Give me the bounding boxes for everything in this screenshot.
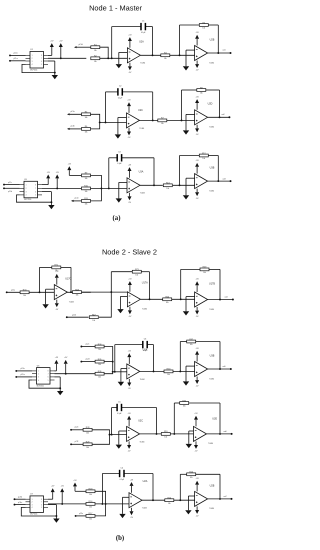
wire U3B out to node — [208, 365, 231, 369]
svg-text:TL084: TL084 — [209, 378, 214, 380]
power arrow 1 of U6 — [54, 357, 58, 371]
wire U17A out to R66 — [140, 298, 162, 300]
power V- arrow of U2D — [195, 125, 199, 136]
node uC2-RX wire row C — [3, 187, 19, 193]
op-amp U3D — [194, 417, 218, 445]
ground at + input of U3B — [183, 366, 195, 386]
feedback right wire of U3B — [217, 156, 219, 183]
svg-text:10k: 10k — [85, 204, 88, 206]
node uC1-TX input wire — [9, 52, 25, 57]
svg-text:10k: 10k — [190, 477, 193, 479]
power V+ arrow of U3A — [128, 164, 132, 177]
svg-text:U3A: U3A — [139, 171, 144, 174]
power V+ arrow of U3B — [195, 348, 199, 361]
svg-text:10k: 10k — [203, 272, 206, 274]
svg-text:TL084: TL084 — [209, 508, 214, 510]
feedback capacitor C4 — [102, 467, 153, 481]
wire U3D out to node — [207, 430, 232, 434]
power arrow 1 of U5 — [42, 172, 51, 185]
svg-text:U2A: U2A — [143, 480, 148, 483]
feedback left wire of U3A — [108, 158, 110, 190]
wire R7 to U2D — [167, 119, 195, 121]
ground wire under U1 — [22, 61, 56, 75]
node uC4-RX wire — [14, 502, 26, 506]
power arrow 1 of U7 — [48, 486, 55, 500]
wire node to U3A — [91, 187, 128, 189]
power arrow 2 of U5 — [55, 172, 59, 190]
input terminal row B lower — [67, 126, 82, 130]
svg-text:(a): (a) — [113, 215, 121, 222]
svg-text:10k: 10k — [200, 93, 203, 95]
node out row D junction — [232, 299, 234, 301]
input node row D — [6, 289, 91, 293]
power V+ arrow of U3C — [127, 413, 131, 426]
feedback resistor R73 — [111, 269, 149, 276]
power V- arrow of U3C — [127, 441, 131, 452]
feedback capacitor C6 — [115, 338, 154, 352]
ground at + input of U2A — [116, 52, 128, 68]
svg-text:(b): (b) — [116, 535, 124, 542]
node uC2-TX wire row C — [3, 182, 19, 186]
wire R9 to main node — [91, 175, 103, 189]
svg-text:TL084: TL084 — [69, 301, 74, 303]
svg-text:TL084: TL084 — [139, 128, 144, 130]
svg-text:U3D: U3D — [212, 417, 217, 420]
resistor R3 — [161, 53, 170, 60]
op-amp U2D — [195, 103, 214, 129]
transceiver IC U5 — [20, 179, 43, 201]
feedback resistor R37 — [180, 339, 220, 346]
feedback left wire of U17A — [110, 272, 112, 293]
svg-text:10k: 10k — [89, 494, 92, 496]
svg-text:0.1µF: 0.1µF — [143, 350, 147, 352]
svg-text:10k: 10k — [166, 188, 169, 190]
node out row G junction — [231, 498, 233, 500]
svg-text:µC2c: µC2c — [86, 344, 90, 346]
input terminal R67 — [66, 314, 89, 318]
svg-text:10k: 10k — [89, 519, 92, 521]
svg-text:10k: 10k — [167, 374, 170, 376]
svg-text:MCP2551: MCP2551 — [30, 514, 37, 516]
feedback left wire of U2C — [105, 92, 107, 123]
wire R5/R6 junction — [91, 114, 127, 129]
svg-text:10k: 10k — [166, 302, 169, 304]
svg-text:µC1d: µC1d — [8, 191, 12, 193]
node out row E junction — [230, 368, 232, 370]
power arrow 2 of U6 — [64, 357, 68, 374]
svg-text:U2B: U2B — [210, 484, 215, 487]
op-amp U3A — [127, 348, 148, 380]
feedback resistor R69 — [181, 267, 220, 274]
transceiver IC U6 — [32, 365, 55, 387]
svg-text:U2C: U2C — [138, 109, 143, 112]
wire merge to U2A — [95, 503, 129, 505]
feedback right wire of U17A — [149, 272, 151, 301]
ground of U1 — [52, 75, 58, 79]
input terminal R17 — [75, 513, 87, 517]
op-amp U2B — [195, 38, 215, 64]
wire U5 to R10 — [42, 187, 81, 189]
feedback right wire of U2B — [217, 25, 219, 54]
resistor R70 — [20, 290, 29, 297]
op-amp U17B — [195, 283, 216, 311]
ground wire under U5 — [17, 192, 53, 205]
power V+ arrow of U2B — [195, 32, 199, 45]
feedback right wire of U3C — [156, 408, 158, 435]
resistor R19 — [161, 431, 170, 438]
power V+ arrow of U17A — [128, 278, 132, 291]
power V+ arrow of U2B — [195, 478, 199, 491]
feedback capacitor C2 — [106, 86, 153, 100]
ground wire under U6 — [29, 377, 61, 391]
feedback right wire of U2D — [219, 90, 221, 118]
resistor R6 — [82, 126, 91, 133]
wire U3A out to R33 — [140, 370, 164, 372]
feedback resistor R15 — [180, 472, 220, 479]
input terminal R29 — [70, 441, 83, 445]
svg-text:10k: 10k — [23, 295, 26, 297]
power +5V arrow at U1 pin 8 — [48, 40, 54, 55]
transceiver IC U1 — [26, 49, 49, 71]
svg-text:10k: 10k — [98, 376, 101, 378]
resistor R17 — [86, 513, 95, 520]
feedback resistor R12 — [180, 153, 219, 160]
svg-text:MCP2551: MCP2551 — [24, 199, 31, 201]
ground at + input of U3C — [116, 431, 127, 449]
ground at + input of U2C — [115, 118, 127, 139]
resistor R35 — [95, 359, 104, 366]
feedback right wire of U2B — [219, 474, 221, 500]
resistor R7 — [158, 118, 167, 125]
input terminal row B upper — [67, 111, 91, 115]
feedback resistor R8 — [182, 87, 220, 94]
svg-text:U2B: U2B — [210, 38, 215, 41]
svg-text:TL084: TL084 — [209, 190, 214, 192]
resistor R9 — [82, 173, 91, 180]
svg-text:TL084: TL084 — [208, 443, 213, 445]
wire R11 to main node — [91, 188, 102, 201]
feedback left wire of U17B — [180, 269, 182, 300]
svg-text:µC1e: µC1e — [74, 198, 78, 200]
svg-text:TL084: TL084 — [209, 309, 214, 311]
wire U3B out to node V3 — [208, 177, 231, 181]
svg-text:µC1a: µC1a — [70, 111, 74, 113]
svg-text:10k: 10k — [85, 132, 88, 134]
wire U17B out to node — [208, 296, 233, 300]
power V- arrow of U2B — [195, 506, 199, 517]
ground at + input of U3D — [186, 431, 194, 448]
svg-text:0.1µF: 0.1µF — [141, 32, 145, 34]
input terminal R35 — [80, 359, 95, 363]
feedback left wire of U2A — [111, 27, 113, 60]
svg-text:Node 2 - Slave 2: Node 2 - Slave 2 — [102, 247, 157, 256]
node V3 junction — [230, 180, 232, 182]
svg-text:10k: 10k — [55, 270, 58, 272]
ground wire under U7 — [21, 505, 57, 519]
svg-text:10k: 10k — [85, 117, 88, 119]
power V- arrow of U17B — [195, 307, 199, 318]
input terminal R11 — [71, 198, 81, 202]
power arrow 2 of U7 — [60, 486, 64, 505]
feedback left wire of U2D — [181, 90, 183, 121]
svg-text:U2D: U2D — [208, 103, 213, 106]
svg-text:10k: 10k — [168, 503, 171, 505]
power V- arrow of U17A — [128, 307, 132, 318]
svg-text:10k: 10k — [86, 432, 89, 434]
feedback capacitor C1 — [112, 20, 153, 34]
resistor R16 — [86, 501, 95, 508]
svg-text:MCP2551: MCP2551 — [30, 69, 37, 71]
wire U2A out to R14 — [142, 499, 165, 501]
wire R3 to U2B — [170, 54, 195, 56]
op-amp U2B — [195, 484, 215, 510]
svg-text:µC3rx: µC3rx — [18, 502, 22, 504]
feedback left wire of U2A — [101, 474, 103, 505]
svg-text:Node 1 - Master: Node 1 - Master — [89, 4, 143, 13]
ground of U6 — [57, 391, 63, 395]
wire into U17A — [111, 291, 127, 293]
power V- arrow of U17C — [55, 300, 59, 311]
wire U2A out to R3 — [140, 54, 160, 56]
power V- arrow of U2C — [127, 128, 131, 139]
svg-text:µC2rx: µC2rx — [20, 374, 24, 376]
feedback right wire of U3D — [219, 403, 221, 435]
ground at + input of U2D — [183, 114, 195, 134]
power V- arrow of U3A — [128, 193, 132, 204]
svg-text:µC1b: µC1b — [70, 126, 74, 128]
power V- arrow of U2B — [195, 61, 199, 72]
svg-text:TL084: TL084 — [209, 127, 214, 129]
svg-text:0.1µF: 0.1µF — [117, 413, 121, 415]
node uC3-TX wire — [15, 367, 32, 372]
feedback right wire of U3A — [153, 158, 155, 186]
svg-text:TL084: TL084 — [140, 441, 145, 443]
ground of U5 — [48, 205, 54, 209]
svg-text:U3B: U3B — [210, 354, 215, 357]
svg-text:U17B: U17B — [209, 283, 215, 286]
svg-text:10k: 10k — [85, 191, 88, 193]
svg-text:10k: 10k — [183, 406, 186, 408]
ground at + input of U2A — [119, 497, 129, 518]
svg-text:µC1rx: µC1rx — [13, 58, 17, 60]
wire R13 to U3B — [173, 184, 195, 186]
svg-text:TL084: TL084 — [142, 309, 147, 311]
wire U3A out to R13 — [140, 184, 163, 186]
power V- arrow of U3D — [194, 441, 198, 452]
feedback right wire of U3B — [219, 342, 221, 370]
power V+ arrow of U3B — [195, 160, 199, 173]
power V- arrow of U2A — [128, 63, 132, 74]
svg-text:10k: 10k — [164, 58, 167, 60]
ground at + input of U17C — [42, 289, 54, 308]
svg-text:µC1d: µC1d — [78, 44, 82, 46]
wire R2 to U2A — [100, 57, 128, 59]
resistor R67 — [89, 315, 98, 322]
feedback capacitor C3 — [109, 152, 154, 166]
node V2 junction — [228, 116, 230, 118]
power arrow at R9 — [67, 164, 81, 176]
svg-text:10k: 10k — [164, 437, 167, 439]
node V1 junction — [230, 52, 232, 54]
svg-text:10k: 10k — [89, 507, 92, 509]
op-amp U2A — [129, 480, 148, 509]
wire R1 to node — [100, 47, 109, 59]
resistor R13 — [163, 183, 172, 190]
feedback right wire of U17B — [219, 269, 221, 300]
input terminal R34 — [80, 344, 95, 348]
svg-text:TL084: TL084 — [142, 508, 147, 510]
resistor R18 — [86, 489, 95, 496]
power V- arrow of U3B — [195, 377, 199, 388]
power V+ arrow of U2D — [195, 96, 199, 109]
resistor R5 — [82, 112, 91, 119]
op-amp U3A — [127, 171, 145, 195]
resistor R29 — [83, 442, 92, 449]
power V+ arrow of U2A — [128, 34, 132, 47]
resistor R33 — [164, 369, 173, 376]
wire R68 to U17A node — [82, 291, 112, 293]
node uC3-RX wire — [15, 374, 32, 378]
svg-text:µC1c: µC1c — [8, 182, 12, 184]
svg-text:U3B: U3B — [210, 167, 215, 170]
svg-text:10k: 10k — [202, 28, 205, 30]
feedback resistor R30 — [174, 400, 220, 407]
svg-text:U17A: U17A — [142, 281, 148, 284]
resistor R1 — [91, 45, 100, 52]
feedback left wire of U3A — [114, 345, 116, 373]
op-amp U17C — [54, 278, 73, 304]
wire U7 to R16 — [48, 503, 87, 505]
power V+ arrow of U3D — [194, 413, 198, 426]
feedback left wire of U3B — [179, 156, 181, 187]
power V+ arrow of U2A — [130, 479, 134, 492]
wire U1 to R2 — [48, 57, 86, 59]
input terminal DAC1 — [74, 44, 91, 48]
ground at + input of U3B — [183, 178, 195, 199]
resistor R36 — [95, 371, 104, 378]
op-amp U2A — [127, 41, 145, 65]
feedback left wire of U3B — [179, 342, 181, 373]
power V+ arrow of U17C — [55, 271, 59, 284]
power arrow at R18 — [73, 480, 87, 492]
ground at + input of U2B — [183, 50, 195, 70]
wire R33 to U3B — [173, 370, 195, 372]
svg-text:µC2e: µC2e — [75, 427, 79, 429]
feedback left wire of U2B — [179, 25, 181, 56]
svg-text:TL084: TL084 — [140, 379, 145, 381]
ground of U7 — [53, 519, 59, 523]
svg-text:10k: 10k — [98, 349, 101, 351]
svg-text:µC2b: µC2b — [72, 314, 76, 316]
input terminal R28 — [70, 427, 83, 431]
svg-text:µC2d: µC2d — [86, 359, 90, 361]
power V+ arrow of U2C — [127, 100, 131, 113]
svg-text:TL084: TL084 — [209, 62, 214, 64]
feedback resistor R71 — [40, 265, 72, 272]
ground at + input of U3A — [116, 182, 127, 202]
feedback left wire of U2B — [179, 474, 181, 501]
svg-text:10k: 10k — [98, 364, 101, 366]
node uC4-TX wire — [14, 495, 26, 500]
resistor R66 — [163, 297, 172, 304]
wire U2B out to node — [208, 495, 232, 499]
resistor R68 — [73, 289, 82, 296]
wire R18 to merge — [95, 491, 107, 505]
svg-text:TL084: TL084 — [140, 193, 145, 195]
svg-text:10k: 10k — [135, 274, 138, 276]
resistor R14 — [165, 498, 174, 505]
svg-text:U3C: U3C — [138, 419, 143, 422]
svg-text:10k: 10k — [85, 178, 88, 180]
power VREF arrow at U1 — [59, 40, 63, 59]
wire R67 up to U17A node — [99, 292, 111, 317]
feedback left wire of U3C — [111, 408, 113, 436]
power V- arrow of U3A — [127, 379, 131, 390]
feedback right wire of U2A — [152, 474, 154, 502]
ground at + input of U17B — [183, 297, 195, 316]
svg-text:10k: 10k — [94, 61, 97, 63]
wire R14 to U2B — [174, 499, 195, 501]
wire R17 to merge — [95, 504, 106, 516]
resistor R11 — [82, 198, 91, 205]
resistor R2 — [91, 56, 100, 63]
power V- arrow of U3B — [195, 189, 199, 200]
svg-text:TL084: TL084 — [140, 63, 145, 65]
ground at + input of U2B — [185, 496, 194, 514]
svg-text:0.1µF: 0.1µF — [120, 479, 124, 481]
wire R19 to U3D — [170, 433, 193, 435]
feedback capacitor C5 — [112, 401, 157, 415]
feedback right wire of U2A — [152, 27, 154, 57]
svg-text:MCP2551: MCP2551 — [37, 385, 44, 387]
svg-text:0.1µF: 0.1µF — [118, 97, 122, 99]
svg-text:µC3a: µC3a — [79, 513, 83, 515]
op-amp U2C — [127, 109, 145, 130]
resistor R34 — [95, 344, 104, 351]
resistor R28 — [83, 427, 92, 434]
svg-text:10k: 10k — [92, 320, 95, 322]
wire U2C out to R7 — [140, 119, 158, 121]
ground at + input of U3A — [118, 369, 127, 387]
svg-text:0.1µF: 0.1µF — [117, 163, 121, 165]
power V+ arrow of U17B — [195, 279, 199, 292]
wire U6 to R36 — [55, 373, 96, 375]
feedback right wire of U2C — [152, 92, 154, 121]
wire R66 to U17B — [172, 298, 195, 300]
feedback left wire of U17C — [39, 267, 41, 293]
wire merge R34 R35 R36 — [104, 347, 127, 374]
svg-text:10k: 10k — [86, 447, 89, 449]
svg-text:10k: 10k — [94, 50, 97, 52]
wire merge R28 R29 — [92, 430, 127, 445]
op-amp U3B — [195, 354, 215, 380]
power V- arrow of U2A — [130, 508, 134, 519]
svg-text:10k: 10k — [202, 158, 205, 160]
wire U2D out to node V2 — [208, 113, 230, 117]
power V+ arrow of U3A — [127, 351, 131, 364]
wire U3C out to R19 — [140, 433, 162, 435]
ground at + input of U17A — [117, 296, 127, 313]
op-amp U3B — [195, 167, 215, 193]
resistor R10 — [82, 186, 91, 193]
svg-text:10k: 10k — [76, 295, 79, 297]
transceiver IC U7 — [26, 494, 49, 516]
feedback right wire of U17C — [70, 267, 72, 293]
svg-text:U2A: U2A — [139, 41, 144, 44]
feedback left wire of U3D — [173, 403, 175, 435]
op-amp U17A — [127, 281, 148, 310]
wire U2B out to node V1 — [208, 49, 231, 53]
